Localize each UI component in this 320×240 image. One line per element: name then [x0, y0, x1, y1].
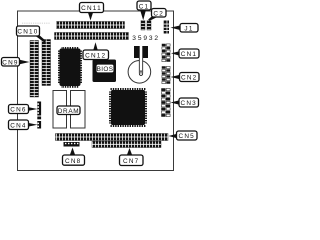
svg-text:BIOS: BIOS [97, 66, 114, 73]
callout CN11 [80, 3, 104, 21]
IC U1 (PLCC chip) [58, 47, 82, 88]
svg-text:CN2: CN2 [181, 75, 197, 82]
connector CN3 (2x9 header) [161, 88, 170, 117]
connector CN10 (vertical pin strip) [42, 40, 51, 86]
IC BIOS chip [93, 60, 117, 83]
BIOS label [96, 64, 114, 73]
connector J1 (pin header) [164, 21, 169, 34]
connector CN4 (small vertical header) [37, 117, 41, 129]
connector CN8 (small header) [64, 142, 80, 147]
callout CN5 [169, 131, 198, 140]
connector CN1 (2x6 header) [162, 44, 171, 62]
svg-text:DRAM: DRAM [58, 108, 80, 115]
svg-text:CN11: CN11 [81, 5, 102, 12]
svg-text:CN10: CN10 [17, 29, 38, 36]
connector CN7 (horizontal pin strip) [92, 141, 161, 147]
svg-text:J1: J1 [184, 26, 193, 33]
IC U2 (QFP chip) [109, 88, 147, 127]
callout CN8 [63, 148, 85, 166]
callout CN6 [9, 105, 38, 114]
svg-text:CN4: CN4 [10, 123, 26, 130]
svg-text:CN7: CN7 [123, 158, 139, 165]
svg-text:C2: C2 [153, 11, 164, 18]
connector CN9 (vertical pin strip) [30, 41, 39, 98]
DRAM label [57, 106, 80, 115]
capacitor C1 (small vertical part) [141, 21, 145, 31]
callout CN12 [83, 42, 109, 59]
connector CN5 (long horizontal pin strip) [56, 134, 169, 141]
connector CN12 (horizontal pin strip) [55, 33, 129, 40]
callout J1 [171, 24, 199, 33]
silkscreen dotted line top-left [22, 22, 50, 24]
connector CN11 (horizontal pin strip) [57, 22, 125, 29]
svg-text:CN12: CN12 [85, 52, 106, 59]
callout CN1 [171, 49, 199, 58]
svg-text:CN3: CN3 [181, 100, 197, 107]
callout CN4 [9, 120, 38, 130]
callout CN2 [171, 73, 200, 82]
svg-text:C1: C1 [139, 3, 150, 10]
svg-text:35932: 35932 [132, 35, 160, 42]
connector CN2 (2x6 header) [162, 66, 171, 84]
callout CN9 [2, 58, 30, 67]
svg-text:CN1: CN1 [181, 51, 197, 58]
capacitor C2 (small vertical part) [147, 21, 151, 31]
battery/trimmer part [128, 46, 151, 83]
svg-text:CN5: CN5 [179, 133, 195, 140]
callout CN3 [171, 98, 199, 107]
callout CN7 [120, 148, 144, 166]
DRAM socket 1 [53, 91, 67, 129]
svg-text:CN6: CN6 [10, 107, 26, 114]
callout CN10 [17, 26, 47, 42]
DRAM socket 2 [71, 91, 86, 129]
connector CN6 (small vertical header) [37, 102, 41, 116]
callout C2 [148, 9, 166, 22]
callout C1 [137, 1, 151, 20]
svg-text:CN8: CN8 [65, 158, 81, 165]
board outline [18, 11, 174, 171]
svg-text:CN9: CN9 [2, 60, 18, 67]
